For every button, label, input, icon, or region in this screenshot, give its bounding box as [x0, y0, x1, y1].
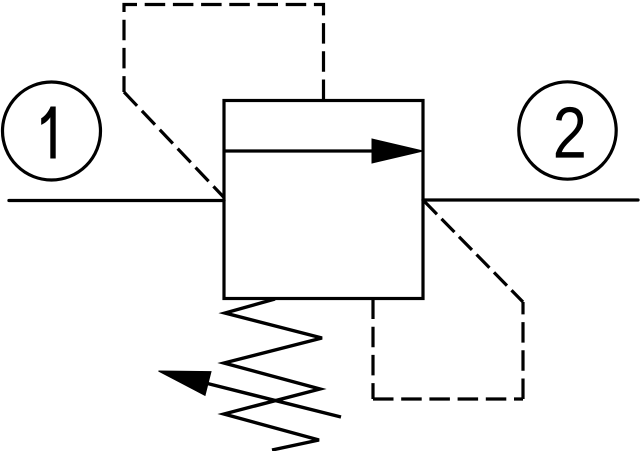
wire port 2 line — [423, 198, 638, 201]
pilot line dashed (downstream) diagonal to port 2 — [424, 201, 523, 302]
adjustment arrow shaft — [207, 383, 341, 417]
pilot line dashed (downstream) bottom horizontal — [373, 397, 523, 400]
pilot line dashed (downstream) vertical from valve bottom — [371, 299, 374, 400]
pilot line dashed (downstream) right vertical — [521, 302, 524, 399]
adjustment arrowhead — [159, 371, 212, 395]
flow path arrowhead — [372, 139, 423, 163]
port circle 2 — [519, 82, 616, 179]
valve body box — [224, 101, 423, 299]
flow path line — [224, 149, 380, 152]
spring — [224, 299, 322, 450]
wire port 1 line — [9, 199, 224, 202]
port circle 1 — [3, 82, 101, 180]
pilot line dashed (upstream, top-left) — [124, 5, 324, 101]
label 1 — [41, 107, 56, 159]
label 2 — [556, 107, 584, 158]
pilot line dashed (upstream) diagonal to port 1 — [124, 92, 224, 198]
